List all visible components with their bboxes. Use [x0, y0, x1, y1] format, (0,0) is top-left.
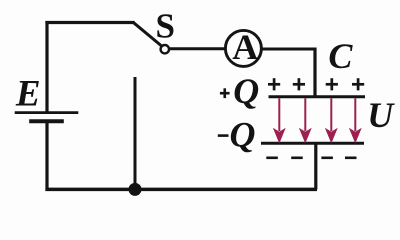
minus charge sign 1 under bottom plate [266, 157, 278, 160]
minus charge sign 2 under bottom plate [291, 157, 303, 160]
E-field arrow 4 [350, 98, 360, 142]
wire: ammeter to right corner [261, 48, 317, 51]
svg-text:A: A [232, 27, 258, 67]
svg-text:Q: Q [230, 115, 256, 155]
svg-text:E: E [15, 74, 41, 115]
svg-text:S: S [156, 7, 175, 46]
battery E long plate (positive terminal) [15, 111, 79, 114]
wire: middle vertical (plate branch to junction) [134, 77, 137, 189]
wire: capacitor bottom plate down to bottom wire [314, 143, 317, 189]
minus charge sign 3 under bottom plate [321, 157, 333, 160]
svg-text:Q: Q [233, 71, 259, 111]
wire: left vertical bottom segment (battery to bottom wire) [45, 123, 48, 191]
capacitor bottom plate [261, 142, 364, 145]
minus charge sign 4 under bottom plate [345, 157, 357, 160]
switch S blade (diagonal wire) [134, 23, 162, 46]
wire: left vertical top segment (top wire down to battery) [45, 21, 48, 113]
label -Q (minus sign) [218, 134, 229, 137]
wire: switch to ammeter [169, 47, 226, 50]
E-field arrow 3 [326, 98, 336, 142]
plus charge sign 4 on top plate [352, 78, 364, 90]
junction node dot [129, 183, 142, 196]
wire: bottom horizontal [45, 188, 317, 192]
label +Q (plus sign) [220, 88, 230, 98]
capacitor top plate [269, 95, 366, 98]
plus charge sign 1 on top plate [268, 78, 280, 90]
ammeter circle [225, 30, 261, 66]
svg-text:U: U [367, 95, 395, 135]
E-field arrow 2 [300, 98, 310, 142]
svg-text:C: C [328, 36, 353, 76]
wire: right vertical down to capacitor top plate [313, 48, 316, 98]
switch S contact circle [161, 45, 169, 53]
battery E short plate (negative terminal) [29, 119, 64, 123]
plus charge sign 3 on top plate [326, 78, 338, 90]
E-field arrow 1 [274, 98, 284, 142]
wire: top horizontal [45, 21, 134, 24]
plus charge sign 2 on top plate [293, 78, 305, 90]
